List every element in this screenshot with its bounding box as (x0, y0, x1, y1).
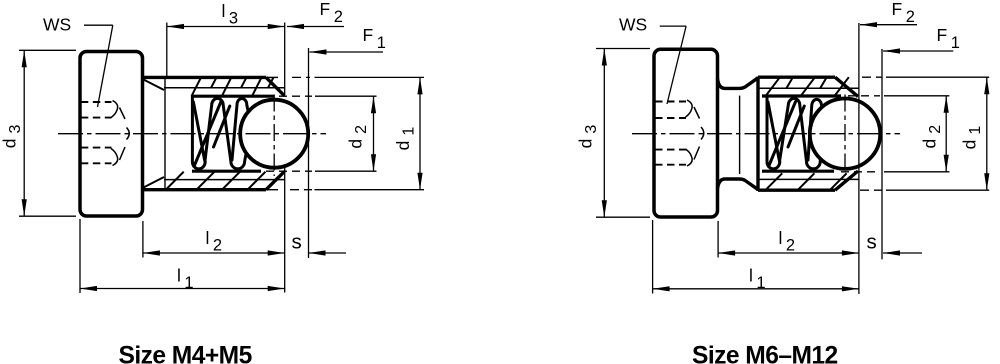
ball (left) (240, 100, 308, 168)
svg-text:d3: d3 (575, 121, 600, 149)
neck between head and body (right) (718, 78, 758, 189)
svg-text:d1: d1 (393, 123, 418, 151)
body outline major diameter (right) (758, 77, 858, 192)
ball (right) (810, 99, 880, 169)
extension lines of d2 (left) (266, 96, 377, 171)
thread minor diameter lines (left) (164, 88, 285, 180)
centerline vertical through ball (right) (844, 95, 846, 177)
dimension F1 arrow (left) (308, 48, 310, 258)
thread minor diameter lines (right) (759, 88, 859, 179)
thread hatch top band (right) (766, 77, 849, 96)
hidden wrench-flat lines WS (left) (81, 102, 112, 163)
extension lines of d2 (right) (841, 96, 949, 172)
svg-text:F1: F1 (363, 25, 386, 52)
thread hatch bottom band (left) (167, 172, 266, 190)
dimension d1 (right) (986, 77, 988, 190)
svg-text:l3: l3 (222, 1, 239, 28)
centerline horizontal (left) (58, 133, 326, 135)
centerline vertical through ball (left) (273, 95, 275, 177)
hex head (left) (80, 52, 143, 217)
bore walls (right) (762, 96, 841, 171)
svg-text:d3: d3 (0, 121, 24, 149)
dimension l3 (left) (167, 23, 285, 95)
socket bottom arcs (left) (111, 101, 129, 166)
dimension d3 (left) (19, 50, 76, 216)
thread hatch bottom band (right) (766, 173, 847, 189)
centerline horizontal (right) (632, 133, 900, 135)
svg-text:l2: l2 (206, 228, 223, 255)
dimension F1 arrow (right) (881, 49, 883, 259)
extension lines of d1 (left) (290, 77, 424, 189)
socket bottom arcs (right) (686, 100, 704, 166)
svg-text:F2: F2 (892, 0, 915, 26)
svg-text:WS: WS (619, 15, 647, 35)
dimension l1 (left) (80, 219, 285, 293)
dimension d2 (left) (373, 96, 375, 171)
dimension F2 arrow (left) (287, 26, 344, 28)
svg-text:s: s (292, 230, 302, 253)
svg-text:d2: d2 (920, 121, 945, 149)
dimension l2 (right) (718, 221, 859, 258)
svg-text:d1: d1 (959, 122, 984, 150)
spring (right figure) (767, 96, 823, 169)
dimension d3 (right) (596, 49, 650, 218)
svg-text:d2: d2 (346, 121, 371, 149)
svg-text:F2: F2 (320, 0, 343, 26)
svg-text:WS: WS (43, 15, 71, 35)
svg-text:Size M4+M5: Size M4+M5 (119, 343, 252, 364)
thread hatch top band (left) (192, 77, 274, 96)
dimension l2 (left) (143, 164, 285, 293)
bore end face line (right) (739, 96, 741, 174)
svg-text:s: s (867, 230, 877, 253)
svg-text:l2: l2 (779, 228, 796, 255)
dimension d2 (right) (945, 96, 947, 172)
bore walls (left) (192, 96, 274, 171)
dimension l1 (right) (653, 220, 859, 294)
thin crest continuation (left) (266, 77, 278, 189)
bore end face line (left) (164, 78, 166, 188)
svg-text:Size M6–M12: Size M6–M12 (692, 343, 838, 364)
extension lines of d1 (right) (860, 77, 989, 190)
svg-text:F1: F1 (937, 25, 960, 52)
dimension d1 (left) (419, 77, 421, 189)
svg-text:l1: l1 (749, 266, 766, 293)
dimension s (left) (309, 252, 347, 254)
dimension F2 arrow (right) (858, 23, 860, 294)
body outline major diameter (left) (143, 77, 285, 189)
hex head (right) (654, 49, 718, 217)
hidden wrench-flat lines WS (right) (655, 102, 686, 165)
dimension s (right) (883, 252, 922, 254)
spring (left figure) (192, 96, 248, 169)
